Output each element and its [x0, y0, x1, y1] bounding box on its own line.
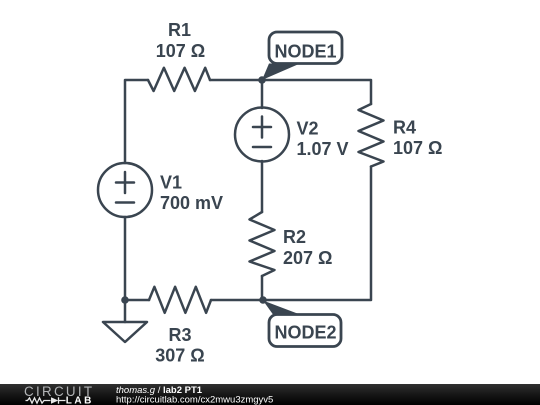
wire node1 to V2: [261, 80, 264, 108]
svg-text:107 Ω: 107 Ω: [393, 138, 442, 158]
svg-text:R1: R1: [168, 20, 191, 40]
svg-text:R3: R3: [168, 325, 191, 345]
voltage source V1: [98, 163, 152, 217]
node NODE1 callout: [262, 32, 342, 80]
footer title text: [116, 385, 273, 405]
wire V2 to R2: [261, 161, 264, 212]
svg-text:307 Ω: 307 Ω: [155, 346, 204, 366]
svg-text:R2: R2: [283, 227, 306, 247]
junction dot left bottom: [121, 296, 129, 304]
svg-text:LAB: LAB: [66, 395, 94, 405]
svg-text:700 mV: 700 mV: [160, 193, 223, 213]
voltage source V2: [235, 108, 289, 162]
svg-text:R4: R4: [393, 118, 416, 138]
svg-text:V2: V2: [297, 119, 319, 139]
wire left rail top: [125, 80, 148, 163]
wire top rail: [210, 80, 371, 104]
svg-text:http://circuitlab.com/cx2mwu3z: http://circuitlab.com/cx2mwu3zmgyv5: [116, 395, 273, 405]
svg-text:NODE2: NODE2: [274, 323, 336, 343]
resistor R1: [148, 68, 210, 91]
wire right rail bottom: [263, 167, 371, 301]
svg-text:NODE1: NODE1: [274, 42, 336, 62]
label V1 value: [160, 173, 223, 214]
label R4 value: [393, 118, 442, 159]
CircuitLab logo: [24, 384, 94, 405]
resistor R2: [250, 212, 275, 276]
svg-text:207 Ω: 207 Ω: [283, 248, 332, 268]
node NODE2 callout: [263, 301, 341, 347]
svg-text:1.07 V: 1.07 V: [297, 139, 349, 159]
wire V1 bottom: [124, 217, 127, 300]
svg-text:107 Ω: 107 Ω: [156, 41, 205, 61]
label R3 value: [155, 325, 204, 366]
ground: [103, 300, 147, 342]
label R1 value: [156, 20, 205, 61]
footer bar: [0, 384, 540, 405]
resistor R4: [359, 104, 384, 167]
wire R3 to left junction: [125, 299, 149, 302]
resistor R3: [149, 287, 211, 313]
label R2 value: [283, 227, 332, 268]
wire node2 to R3: [211, 299, 263, 302]
junction dot node1: [258, 76, 266, 84]
junction dot node2: [259, 296, 267, 304]
svg-text:V1: V1: [160, 173, 182, 193]
label V2 value: [297, 119, 349, 160]
wire R2 to node2: [261, 276, 264, 300]
